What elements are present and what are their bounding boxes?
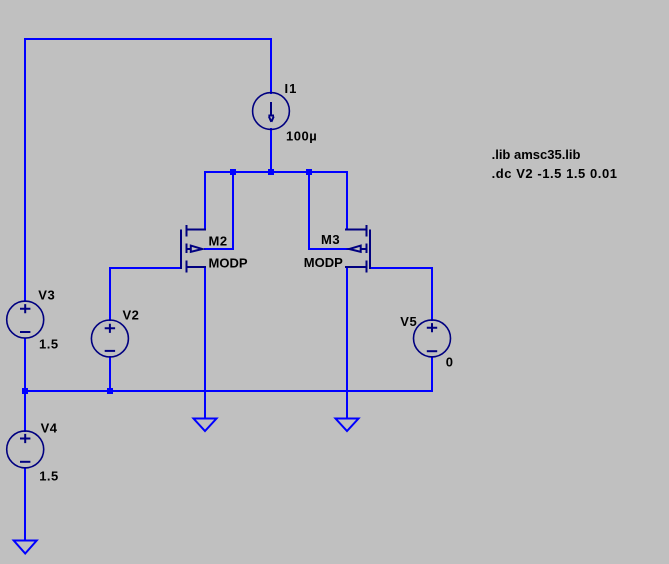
node junction bottom rail at V2 column xyxy=(107,388,113,394)
node junction on top rail at M2 bulk xyxy=(230,169,236,175)
svg-text:1.5: 1.5 xyxy=(39,469,59,484)
svg-text:V3: V3 xyxy=(38,288,55,303)
svg-text:I1: I1 xyxy=(285,81,298,96)
transistor M3 (PMOS, gate right, mirrored) xyxy=(345,225,370,273)
wire V5 bottom to rail xyxy=(431,356,433,392)
wire top rail between M2 and M3 sources xyxy=(204,171,348,173)
wire from I1 bottom pin down to top rail xyxy=(270,128,272,173)
wire rail down to V4 top xyxy=(24,390,26,432)
svg-text:100µ: 100µ xyxy=(286,129,317,144)
current source I1 xyxy=(253,93,290,130)
ground under M2 drain xyxy=(194,419,217,432)
wire from top wire down to I1 top pin xyxy=(270,38,272,94)
wire M3 gate to V5 top xyxy=(369,268,432,321)
svg-text:0: 0 xyxy=(446,354,453,369)
svg-text:M2: M2 xyxy=(209,233,228,248)
wire M2 source up to rail xyxy=(204,171,206,230)
node junction on top rail at M3 bulk xyxy=(306,169,312,175)
wire top horizontal from left column to I1 xyxy=(24,38,272,40)
svg-text:V5: V5 xyxy=(400,314,417,329)
svg-text:MODP: MODP xyxy=(304,255,343,270)
svg-text:V2: V2 xyxy=(123,308,140,323)
wire V4 bottom down to ground xyxy=(24,467,26,541)
node junction bottom rail at V3/V4 column xyxy=(22,388,28,394)
voltage source V4 xyxy=(7,431,44,468)
svg-text:M3: M3 xyxy=(321,232,340,247)
wire M3 bulk L-shape up to rail junction xyxy=(309,171,349,249)
svg-text:1.5: 1.5 xyxy=(39,337,59,352)
transistor M2 (PMOS, gate left) xyxy=(181,225,206,273)
voltage source V2 xyxy=(91,320,128,357)
svg-text:.dc V2 -1.5 1.5 0.01: .dc V2 -1.5 1.5 0.01 xyxy=(492,166,618,181)
ground under V4 xyxy=(14,541,37,554)
wire M3 source up to rail xyxy=(346,171,348,230)
wire M2 drain down through bottom rail to ground xyxy=(204,267,206,419)
voltage source V5 xyxy=(414,320,451,357)
wire M2 bulk L-shape up to rail junction xyxy=(204,171,233,249)
wire M3 drain down through bottom rail to ground xyxy=(346,267,348,419)
node junction on top rail at I1 xyxy=(268,169,274,175)
svg-text:V4: V4 xyxy=(41,421,58,436)
voltage source V3 xyxy=(7,301,44,338)
wire V3 bottom to rail xyxy=(24,338,26,392)
svg-text:MODP: MODP xyxy=(209,256,248,271)
wire M2 gate to V2 top xyxy=(110,268,182,321)
svg-text:.lib amsc35.lib: .lib amsc35.lib xyxy=(492,147,581,162)
ground under M3 drain xyxy=(336,419,359,432)
wire left vertical from top wire down to V3 xyxy=(24,38,26,302)
wire V2 bottom to rail xyxy=(109,356,111,392)
wire bottom rail xyxy=(24,390,433,392)
